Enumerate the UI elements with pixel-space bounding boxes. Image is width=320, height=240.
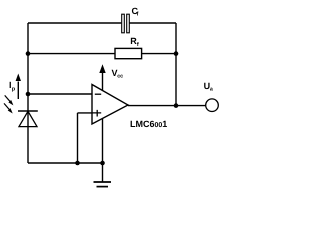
svg-text:cc: cc xyxy=(117,73,123,79)
svg-text:f: f xyxy=(137,11,139,18)
svg-text:f: f xyxy=(137,41,139,48)
svg-text:p: p xyxy=(12,87,16,93)
svg-text:a: a xyxy=(210,87,213,93)
svg-text:LMC6001: LMC6001 xyxy=(130,119,167,129)
